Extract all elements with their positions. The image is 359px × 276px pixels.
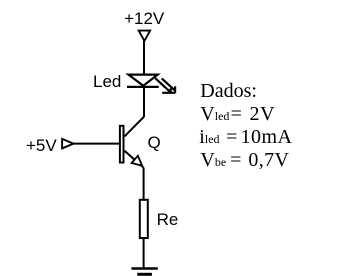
label Re <box>157 211 179 228</box>
value Vbe = 0,7V <box>200 150 289 170</box>
wire resistor to ground <box>143 238 145 268</box>
power +12V arrow symbol <box>139 31 150 41</box>
transistor Q1: emitter arrowhead <box>132 156 143 166</box>
wire LED cathode to transistor collector <box>143 87 145 117</box>
LED emission arrow 2 <box>162 78 175 93</box>
LED emission arrow 1 <box>155 78 171 93</box>
value Vled = 2V <box>200 104 275 124</box>
resistor Re body <box>140 200 148 238</box>
transistor Q1: emitter lead <box>125 151 144 168</box>
ground bar 2 <box>137 273 152 276</box>
LED Led: cathode bar <box>127 86 159 88</box>
base wire +5V to transistor <box>74 143 120 145</box>
LED Led: diode triangle <box>129 75 158 86</box>
wire emitter to resistor Re <box>143 168 145 200</box>
label Led <box>93 73 121 90</box>
transistor Q1: base bar <box>120 126 124 163</box>
transistor Q1: collector lead <box>125 117 144 137</box>
wire +12V to LED anode <box>143 41 145 75</box>
ground bar 1 <box>131 267 157 270</box>
label Q <box>148 134 161 151</box>
data heading Dados: <box>200 81 257 101</box>
label +5V <box>26 137 57 154</box>
input +5V terminal triangle <box>62 139 73 149</box>
value iled = 10mA <box>199 127 292 147</box>
label +12V <box>124 10 164 27</box>
